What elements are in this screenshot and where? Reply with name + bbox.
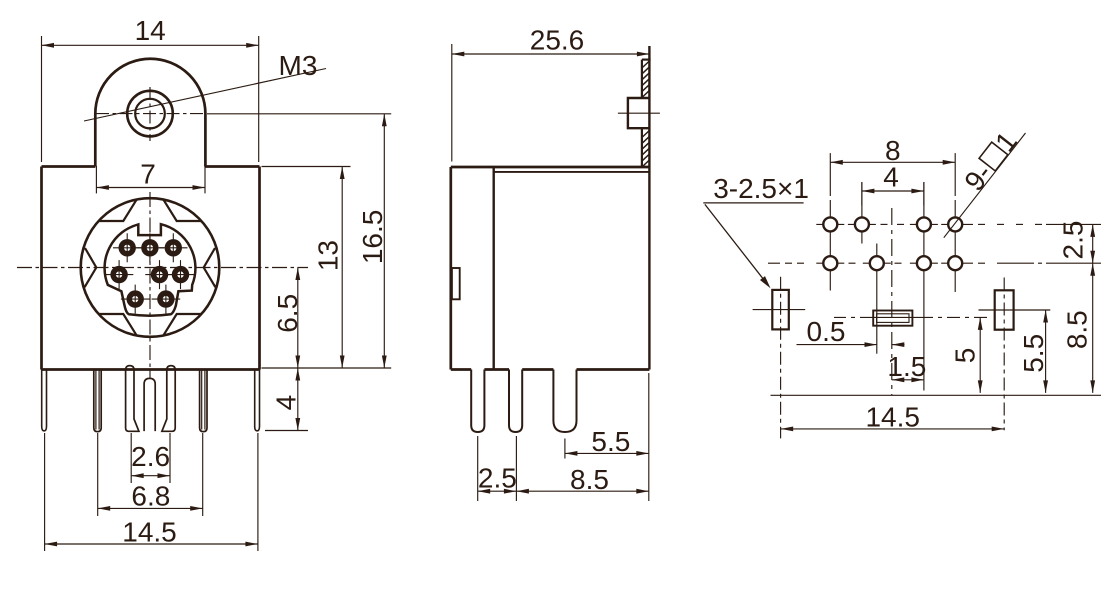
shield pin right prong (162, 366, 175, 432)
svg-text:5: 5 (950, 348, 981, 364)
M3 hole vertical centerline (149, 87, 151, 141)
front pin 2 inner fold lines (95, 370, 97, 430)
middle slot inner rectangle (877, 314, 909, 323)
dimension 8 extension lines (829, 153, 831, 196)
dimension 7 (96, 187, 205, 189)
shell notch left triangle (85, 248, 97, 287)
side view mounting plate left edge (641, 60, 643, 167)
svg-text:3-2.5×1: 3-2.5×1 (713, 173, 809, 204)
side view boss centerline (618, 112, 660, 114)
svg-text:14.5: 14.5 (865, 402, 920, 433)
dimension 4 footprint (862, 190, 924, 192)
dimension 16.5 vertical (383, 114, 385, 368)
dimension 2.6 (131, 475, 170, 477)
svg-text:2.5: 2.5 (1058, 221, 1089, 260)
dimension 2.5 side (478, 490, 517, 492)
svg-text:25.6: 25.6 (530, 25, 585, 56)
side view mounting plate right edge (648, 46, 650, 370)
label 9-square-1 leader line (944, 133, 1026, 238)
shell notch top-left (99, 200, 137, 221)
svg-text:5.5: 5.5 (591, 426, 630, 457)
label 9-square-1 (958, 126, 1023, 197)
svg-text:4: 4 (883, 162, 899, 193)
side view inner top line (494, 171, 650, 173)
side bottom extension lines (564, 439, 566, 459)
dimension 7 extension lines (95, 166, 97, 194)
extension line at body bottom right (262, 367, 392, 369)
svg-text:13: 13 (313, 240, 344, 271)
M3 label leader line (84, 69, 326, 122)
side view latch bump (452, 268, 460, 299)
dimension 6.5 vertical (297, 268, 299, 369)
svg-text:2.6: 2.6 (131, 441, 170, 472)
front pin 5 outline (200, 370, 207, 432)
svg-text:0.5: 0.5 (807, 316, 846, 347)
dimension 8.5 footprint vertical (1092, 263, 1094, 393)
left slot 2.5x1 (772, 290, 789, 330)
front right edge pin (255, 370, 260, 431)
shell notch bottom-left (99, 314, 137, 335)
dimension 13 vertical (341, 167, 343, 369)
connector shell outer circle (81, 198, 220, 337)
face pin middle-center (151, 266, 168, 283)
dimension 8.5 side (516, 490, 648, 492)
svg-text:M3: M3 (279, 50, 318, 81)
dimension 4 extension lines (861, 182, 863, 206)
shield outline with key notch and chin (105, 224, 196, 316)
svg-text:16.5: 16.5 (357, 210, 388, 265)
dimension 25.6 extension line (451, 44, 453, 162)
dimension 1.5 footprint (892, 379, 924, 381)
footprint main horizontal centerline (816, 262, 844, 264)
M3 hole horizontal centerline (96, 113, 203, 115)
middle slot centerline right dashes (920, 316, 988, 318)
dimension 5.5 side (565, 452, 649, 454)
label 3-2.5x1 underline (703, 202, 803, 204)
side view pin A (471, 370, 484, 433)
footprint pin holes top row (823, 217, 837, 231)
svg-text:14.5: 14.5 (122, 516, 177, 547)
footprint hole row centerline top (816, 223, 844, 225)
shell notch bottom-right (164, 314, 202, 335)
footprint bottom line (771, 394, 1102, 396)
left slot vertical centerline (780, 277, 782, 439)
front pin 2 outline (94, 370, 101, 432)
shield pin center U-slot (144, 378, 155, 431)
side view body outline (451, 167, 650, 370)
face pin middle-left (110, 266, 127, 283)
svg-text:1.5: 1.5 (887, 351, 926, 382)
side view plate hatching (642, 61, 650, 68)
dimension 14 extension lines (41, 36, 43, 162)
dimension 5.5 footprint vertical (1045, 310, 1047, 393)
dimension 14.5 footprint (781, 428, 1005, 430)
front view horizontal centerline (17, 267, 308, 269)
right slot horizontal crosshair (979, 309, 1051, 311)
dimension 4 vertical (297, 368, 299, 431)
dimension 14.5 front (45, 543, 258, 545)
footprint main vertical centerline (891, 208, 893, 395)
shell notch top-right (164, 200, 202, 221)
extension line at tab hole center level (207, 113, 391, 115)
right slot vertical centerline (1003, 278, 1005, 431)
hole column line 3 (923, 182, 925, 391)
svg-text:8.5: 8.5 (1062, 310, 1093, 349)
side view boss rectangle (628, 98, 650, 128)
middle slot centerline left dashes (834, 316, 864, 318)
hole column line 2 top (861, 182, 863, 244)
dimension 8 footprint (830, 161, 955, 163)
middle slot centerline through slot (864, 316, 920, 318)
svg-text:4: 4 (271, 395, 302, 411)
extension line at body top right (262, 166, 351, 168)
dimension 0.5 footprint (797, 344, 878, 346)
dimension 5 footprint vertical (979, 317, 981, 393)
hole column line 1 (829, 200, 831, 291)
right slot 2.5x1 (995, 290, 1014, 329)
dimension 14 (42, 44, 259, 46)
left slot horizontal crosshair (753, 309, 806, 311)
front left edge pin (42, 370, 47, 431)
middle slot outer rectangle (873, 311, 912, 326)
svg-text:1: 1 (989, 126, 1023, 157)
dimension 6.8 (98, 507, 203, 509)
face pin middle-right (172, 266, 189, 283)
label 3-2.5x1 leader with arrow (705, 204, 768, 284)
front pin 5 inner fold lines (201, 370, 203, 430)
hole column line 4 (954, 200, 956, 292)
face pin top-center (141, 239, 158, 256)
side view pin B (509, 370, 522, 433)
M3 mounting hole outer circle (127, 91, 173, 137)
svg-text:6.5: 6.5 (272, 294, 303, 333)
face pin top-right (165, 239, 182, 256)
face pin top-left (119, 239, 136, 256)
face pin bottom-right (157, 290, 174, 307)
front view vertical centerline (149, 192, 151, 379)
side view barrel divider line (493, 167, 495, 370)
face pin bottom-left (127, 290, 144, 307)
svg-text:2.5: 2.5 (478, 463, 517, 494)
front view: connector body outline (42, 167, 260, 370)
M3 mounting hole inner circle (135, 99, 165, 129)
front view: mounting tab (ear) outline (95, 59, 205, 167)
footprint pin holes bottom row (823, 256, 837, 270)
svg-text:7: 7 (140, 159, 156, 190)
dimension 2.5 footprint vertical (1092, 224, 1094, 263)
side view pin C (553, 370, 576, 433)
hole column line 2 bottom (876, 244, 878, 354)
dimension 25.6 (452, 53, 650, 55)
svg-text:14: 14 (135, 15, 166, 46)
extension line at pin bottom right (265, 430, 308, 432)
side view mounting plate top cap (642, 58, 651, 60)
svg-text:6.8: 6.8 (131, 481, 170, 512)
shield pin left prong (126, 366, 139, 432)
svg-text:8.5: 8.5 (570, 464, 609, 495)
svg-text:9-: 9- (958, 158, 998, 197)
shell notch right triangle (204, 248, 216, 287)
svg-text:5.5: 5.5 (1018, 334, 1049, 373)
bottom extension lines of front view (44, 433, 46, 551)
